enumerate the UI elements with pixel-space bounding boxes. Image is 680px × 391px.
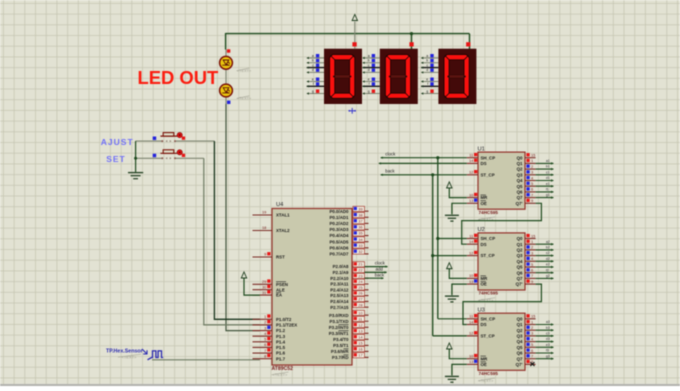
svg-text:13: 13 [469,198,473,203]
display1 top pin state square (red) [352,42,356,46]
svg-text:5: 5 [531,262,533,267]
wire: U2 Q3 to net c2 [536,255,554,257]
U1 pin 2 (Q2) [517,164,536,172]
svg-text:P0.5/AD5: P0.5/AD5 [329,239,349,244]
U4 pin 28 (P2.7/A15) [330,302,368,310]
svg-text:SH_CP: SH_CP [481,316,496,321]
svg-text:7: 7 [531,273,533,278]
svg-text:9: 9 [264,252,266,257]
U3 pin 4 (Q4) [517,336,536,344]
wire: U2 Q5 to net e2 [536,266,554,268]
U2 pin 13 (OE) [467,279,487,287]
svg-text:39: 39 [358,206,362,211]
svg-text:Q0: Q0 [517,316,523,321]
U1 pin 7 (Q7) [517,192,536,200]
svg-text:2: 2 [264,320,266,325]
wire: U3 Q7 to net g3 [536,358,554,360]
U4 pin 23 (P2.2/A10) [330,273,368,281]
U1 pin 3 (Q3) [517,170,536,178]
U4 pin 5 (P1.4) [253,337,286,345]
svg-text:37: 37 [358,219,362,224]
svg-text:26: 26 [358,291,362,296]
U2 pin 6 (Q6) [517,268,536,276]
svg-text:18: 18 [262,225,266,230]
svg-text:15: 15 [531,314,535,319]
wire: power to U3 MR [449,349,467,359]
svg-text:28: 28 [358,302,362,307]
svg-text:a3: a3 [546,320,550,324]
U4 pin 12 (P3.2/INT0) [329,322,369,330]
svg-text:12: 12 [469,170,473,175]
svg-text:XTAL2: XTAL2 [276,228,290,233]
svg-text:3: 3 [531,170,533,175]
svg-text:32: 32 [358,249,362,254]
ground symbol below U3 [445,376,459,382]
bottom window edge [0,384,680,386]
U4 pin 8 (P1.7) [253,353,286,361]
shift register U2 74HC595 body [478,233,525,290]
svg-text:Q2: Q2 [517,328,523,333]
svg-text:U4: U4 [276,202,284,208]
U2 pin 7 (Q7) [517,273,536,281]
svg-text:clock: clock [385,151,396,156]
svg-text:EA: EA [276,293,283,298]
U4 pin 21 (P2.0/A8) [333,262,369,270]
svg-text:c3: c3 [546,332,550,336]
LED D2 bottom pin square (blue) [227,101,230,104]
svg-text:P1.0/T2: P1.0/T2 [276,317,292,322]
svg-text:P0.6/AD6: P0.6/AD6 [329,245,349,250]
ground symbol below U2 [445,296,459,302]
svg-text:Q6: Q6 [517,270,523,275]
ground symbol below U1 [445,215,459,221]
pins of DISP3 (a-g) [421,54,438,95]
svg-text:e2: e2 [546,263,550,267]
svg-text:e: e [312,77,314,81]
U4 pin 38 (P0.1/AD1) [329,212,368,220]
svg-text:5: 5 [531,342,533,347]
wire: U3 Q1 to net a3 [536,324,554,326]
power symbol at U4 EA pin [241,272,246,278]
svg-text:Q7: Q7 [517,276,523,281]
node marker below display 1 [348,108,356,114]
svg-text:ST_CP: ST_CP [481,253,495,258]
wire: rail drop to display 3 top pin [469,34,471,49]
svg-text:11: 11 [469,153,473,158]
display2 top pin state square (red) [409,42,413,46]
svg-text:f2: f2 [546,268,549,272]
U4 pin 39 (P0.0/AD0) [329,206,368,214]
svg-text:d3: d3 [546,337,550,341]
svg-text:35: 35 [358,231,362,236]
wire: clock tap to U2 SH_CP [438,238,467,240]
U4 pin 1 (P1.0/T2) [253,314,292,322]
svg-text:P3.3/INT1: P3.3/INT1 [329,331,349,336]
U3 pin 14 (DS) [467,319,487,327]
svg-text:3: 3 [531,250,533,255]
junction at display 2 drop [410,32,413,35]
svg-text:f: f [369,82,370,86]
svg-text:1: 1 [531,239,533,244]
U3 pin 1 (Q1) [517,319,536,327]
U3 pin 5 (Q5) [517,342,536,350]
svg-text:XTAL1: XTAL1 [276,213,290,218]
svg-text:P3.4/T0: P3.4/T0 [333,337,349,342]
svg-text:21: 21 [358,262,362,267]
svg-text:5: 5 [531,181,533,186]
svg-text:SET: SET [106,154,126,164]
svg-text:f: f [427,82,428,86]
svg-text:25: 25 [358,285,362,290]
U4 pin 24 (P2.3/A11) [330,279,368,287]
wire: U2 Q4 to net d2 [536,260,554,262]
svg-text:74HC595: 74HC595 [479,291,499,296]
svg-text:1: 1 [264,314,266,319]
svg-text:P2.6/A14: P2.6/A14 [330,299,349,304]
U4 pin 6 (P1.5) [253,342,286,350]
wire: power to EA [244,278,260,295]
svg-text:P1.4: P1.4 [276,339,286,344]
7-segment display DISP1 [324,49,362,104]
wire: top power rail horizontal [226,33,470,35]
U4 pin 36 (P0.3/AD3) [329,225,368,233]
wire: U1 Q6 to net f1 [536,191,554,193]
svg-text:MR: MR [481,276,489,281]
svg-text:b2: b2 [546,246,550,250]
U1 pin 10 (MR) [467,192,488,200]
wire: U2 OE to ground [452,284,467,295]
svg-text:c: c [312,63,314,67]
wire: U3 Q5 to net e3 [536,346,554,348]
wire: U2 Q7' cascade to U3 DS [463,284,541,324]
svg-text:P0.3/AD3: P0.3/AD3 [329,227,349,232]
microcontroller U4 AT89C52 body [272,209,352,366]
svg-text:e: e [368,77,370,81]
svg-text:Q0: Q0 [517,155,523,160]
svg-text:P2.4/A12: P2.4/A12 [330,287,349,292]
U1 pin 13 (OE) [467,198,487,206]
pulse generator symbol [142,349,163,360]
svg-text:12: 12 [358,322,362,327]
wire: clock vertical bus [437,158,439,319]
svg-text:7: 7 [264,348,266,353]
display3 top pin state square (red) [466,42,470,46]
svg-text:Q3: Q3 [517,253,523,258]
wire: U3 OE to ground [452,364,467,375]
U2 pin 5 (Q5) [517,262,536,270]
wire: U1 Q5 to net e1 [536,185,554,187]
svg-text:P1.7: P1.7 [276,356,286,361]
svg-text:Q5: Q5 [517,345,523,350]
U2 pin 14 (DS) [467,239,487,247]
svg-text:19: 19 [262,210,266,215]
svg-text:12: 12 [469,331,473,336]
svg-text:ST_CP: ST_CP [481,172,495,177]
U1 pin 15 (Q0) [517,153,536,161]
svg-text:7: 7 [531,192,533,197]
svg-text:P3.6/WR: P3.6/WR [331,349,349,354]
svg-text:g2: g2 [546,274,550,278]
wire: U1 Q7' cascade to U2 DS [462,203,542,244]
wire: back vertical bus [432,175,434,336]
power symbol at U3 MR pin [447,343,452,349]
U4 pin 35 (P0.4/AD4) [329,231,368,239]
U3 pin 6 (Q6) [517,348,536,356]
wire: U1 Q1 to net a1 [536,162,554,164]
svg-text:P1.2: P1.2 [276,328,286,333]
U3 pin 10 (MR) [467,354,488,362]
svg-text:6: 6 [531,268,533,273]
U2 pin 15 (Q0) [517,233,536,241]
U2 pin 12 (ST_CP) [467,250,495,258]
wire: U1 Q7 to net g1 [536,197,554,199]
svg-text:U3: U3 [478,307,485,313]
svg-text:b: b [312,59,314,63]
svg-text:12: 12 [469,250,473,255]
U4 pin 13 (P3.3/INT1) [329,328,369,336]
svg-text:b1: b1 [546,165,550,169]
U2 pin 4 (Q4) [517,256,536,264]
svg-text:P2.3/A11: P2.3/A11 [330,282,349,287]
svg-text:Q7': Q7' [516,282,523,287]
svg-text:AJUST: AJUST [101,137,134,147]
svg-text:15: 15 [531,153,535,158]
svg-text:a: a [312,54,314,58]
svg-text:29: 29 [262,279,266,284]
U4 pin 33 (P0.6/AD6) [329,243,368,251]
svg-text:P0.0/AD0: P0.0/AD0 [329,209,349,214]
U4 pin 7 (P1.6) [253,348,286,356]
svg-text:Q7': Q7' [516,201,523,206]
push button SW1 (AJUST) [136,133,215,143]
svg-text:d: d [368,68,370,72]
U3 pin 12 (ST_CP) [467,331,495,339]
U4 pin 19 (XTAL1) [253,210,291,218]
svg-text:2: 2 [531,325,533,330]
svg-text:PSEN: PSEN [276,282,288,287]
wire: power to U1 MR [449,188,467,198]
svg-text:c: c [368,63,370,67]
U4 pin 26 (P2.5/A13) [330,291,368,299]
svg-text:11: 11 [469,314,473,319]
wire: U1 OE to ground [452,203,467,214]
svg-text:OE: OE [481,362,487,367]
svg-text:U2: U2 [478,227,485,233]
svg-text:22: 22 [358,268,362,273]
svg-text:15: 15 [358,341,362,346]
U3 pin 15 (Q0) [517,314,536,322]
svg-text:Q1: Q1 [517,242,523,247]
U1 pin 14 (DS) [467,158,487,166]
U4 pin 18 (XTAL2) [253,225,291,233]
wire: back tap to U3 ST_CP [433,335,467,337]
svg-text:a1: a1 [546,159,550,163]
wire: pulse source to U4 P1.7 [152,359,260,361]
power symbol above display 1 [354,22,356,49]
svg-text:7: 7 [531,354,533,359]
wire: back tap to U2 ST_CP [433,255,467,257]
svg-text:Q6: Q6 [517,351,523,356]
svg-text:ST_CP: ST_CP [481,334,495,339]
wire: net back stub from U4 P2.2 [365,277,384,279]
wire: LED column down to U4 P1.2 [226,104,260,331]
svg-text:add: add [376,267,384,272]
wire: LED column (power rail to LEDs) [225,50,227,104]
svg-text:a: a [426,54,428,58]
U1 pin 5 (Q5) [517,181,536,189]
svg-text:P2.1/A9: P2.1/A9 [333,270,349,275]
7-segment display DISP2 [380,49,418,104]
U4 pin 11 (P3.1/TXD) [329,316,368,324]
svg-text:Q1: Q1 [517,161,523,166]
U4 pin 3 (P1.2) [253,325,286,333]
svg-text:c: c [426,63,428,67]
power symbol at U2 MR pin [447,263,452,269]
svg-text:Q5: Q5 [517,184,523,189]
U2 pin 1 (Q1) [517,239,536,247]
svg-text:P3.0/RXD: P3.0/RXD [329,313,349,318]
svg-text:g: g [426,89,428,93]
svg-text:c2: c2 [546,251,550,255]
svg-text:38: 38 [358,212,362,217]
U4 pin 17 (P3.7/RD) [332,353,369,361]
U3 pin 13 (OE) [467,359,487,367]
svg-text:e: e [426,77,428,81]
svg-text:P0.1/AD1: P0.1/AD1 [329,215,349,220]
svg-text:Q4: Q4 [517,259,523,264]
svg-text:3: 3 [531,331,533,336]
svg-text:23: 23 [358,273,362,278]
no-connect marker at U3 Q7' [530,362,534,366]
U4 pin 37 (P0.2/AD2) [329,219,368,227]
shift register U3 74HC595 body [478,313,525,370]
U4 pin 31 (EA) [253,290,283,298]
wire: net clock stub from U4 P2.0 [365,266,388,268]
U1 pin 4 (Q4) [517,175,536,183]
svg-text:Q7': Q7' [516,362,523,367]
svg-text:g3: g3 [546,354,550,358]
wire: U2 Q6 to net f2 [536,272,554,274]
svg-text:2: 2 [531,245,533,250]
U4 pin 15 (P3.5/T1) [333,341,368,349]
svg-text:P0.4/AD4: P0.4/AD4 [329,233,349,238]
U4 pin 25 (P2.4/A12) [330,285,368,293]
svg-text:SH_CP: SH_CP [481,155,496,160]
wire: U2 Q2 to net b2 [536,249,554,251]
U3 pin 11 (SH_CP) [467,314,495,322]
wire: power to U2 MR [449,269,467,279]
U1 pin 6 (Q6) [517,187,536,195]
svg-text:Q4: Q4 [517,178,523,183]
U2 pin 11 (SH_CP) [467,233,495,241]
svg-text:11: 11 [469,233,473,238]
svg-text:2: 2 [531,164,533,169]
svg-text:P2.5/A13: P2.5/A13 [330,293,349,298]
power symbol at U1 MR pin [447,182,452,188]
svg-text:P2.0/A8: P2.0/A8 [333,264,349,269]
U3 pin 9 (Q7&#39;) [516,359,536,367]
svg-text:P3.2/INT0: P3.2/INT0 [329,325,349,330]
U4 pin 16 (P3.6/WR) [331,347,369,355]
svg-text:d2: d2 [546,257,550,261]
svg-text:e1: e1 [546,182,550,186]
wire: rail drop to display 2 top pin [411,34,413,49]
wire: AJUST button to U4 P1.0 [214,141,260,319]
svg-text:6: 6 [264,342,266,347]
U1 pin 1 (Q1) [517,158,536,166]
svg-text:11: 11 [358,316,362,321]
wire: U2 Q7 to net g2 [536,277,554,279]
svg-text:P1.3: P1.3 [276,334,286,339]
U2 pin 9 (Q7&#39;) [516,279,536,287]
wire: U3 Q4 to net d3 [536,341,554,343]
svg-text:1: 1 [531,158,533,163]
wire: U3 Q2 to net b3 [536,329,554,331]
svg-text:6: 6 [531,187,533,192]
push button SW2 (SET) [136,150,204,160]
U4 pin 27 (P2.6/A14) [330,297,368,305]
svg-text:g: g [368,89,370,93]
U4 pin 14 (P3.4/T0) [333,335,368,343]
svg-text:DS: DS [481,161,487,166]
svg-text:P3.1/TXD: P3.1/TXD [329,319,348,324]
svg-text:5: 5 [264,337,266,342]
svg-text:Q1: Q1 [517,322,523,327]
svg-text:OE: OE [481,282,487,287]
U4 pin 32 (P0.7/AD7) [329,249,368,257]
svg-text:15: 15 [531,233,535,238]
7-segment display DISP3 [438,49,476,104]
LED D1 [220,56,233,69]
svg-text:6: 6 [531,348,533,353]
svg-text:U1: U1 [478,146,485,152]
wire: U3 Q3 to net c3 [536,335,554,337]
svg-text:Q2: Q2 [517,167,523,172]
pins of DISP2 (a-g) [363,54,380,95]
svg-text:ALE: ALE [276,287,285,292]
wire: rail drop to LED column [225,33,227,50]
svg-text:P0.7/AD7: P0.7/AD7 [329,252,349,257]
wire: U3 Q6 to net f3 [536,352,554,354]
wire: SET button to U4 P1.1 [204,158,260,325]
svg-text:P1.6: P1.6 [276,351,286,356]
svg-text:13: 13 [358,328,362,333]
svg-text:36: 36 [358,225,362,230]
svg-text:<TEXT>: <TEXT> [237,69,252,73]
svg-text:Q2: Q2 [517,248,523,253]
pins of DISP1 (a-g) [307,54,324,95]
svg-text:g1: g1 [546,193,550,197]
svg-text:13: 13 [469,279,473,284]
svg-text:27: 27 [358,297,362,302]
svg-text:P3.7/RD: P3.7/RD [332,355,349,360]
svg-text:SH_CP: SH_CP [481,236,496,241]
svg-text:P2.2/A10: P2.2/A10 [330,276,349,281]
svg-text:9: 9 [531,279,533,284]
svg-text:clock: clock [375,261,386,266]
svg-text:8: 8 [264,353,266,358]
svg-text:P3.5/T1: P3.5/T1 [333,343,349,348]
svg-text:back: back [375,272,385,277]
U2 pin 3 (Q3) [517,250,536,258]
U3 pin 7 (Q7) [517,354,536,362]
wire: U1 Q4 to net d1 [536,180,554,182]
svg-text:d: d [312,68,314,72]
svg-text:OE: OE [481,201,487,206]
svg-text:Q4: Q4 [517,339,523,344]
wire: clock tap to U3 SH_CP [438,318,467,320]
U1 pin 11 (SH_CP) [467,153,495,161]
